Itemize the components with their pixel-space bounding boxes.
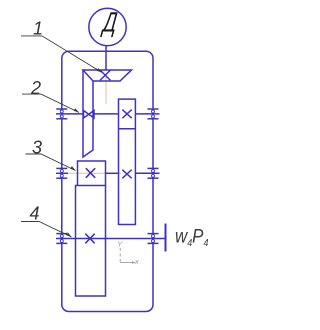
svg-text:1: 1 bbox=[33, 19, 43, 39]
svg-text:x: x bbox=[134, 257, 139, 266]
svg-text:Y: Y bbox=[117, 240, 123, 249]
svg-text:4: 4 bbox=[30, 204, 40, 224]
svg-text:w4P4: w4P4 bbox=[175, 226, 208, 250]
svg-text:2: 2 bbox=[30, 78, 41, 98]
svg-text:Д: Д bbox=[99, 7, 119, 39]
svg-text:3: 3 bbox=[32, 138, 42, 158]
